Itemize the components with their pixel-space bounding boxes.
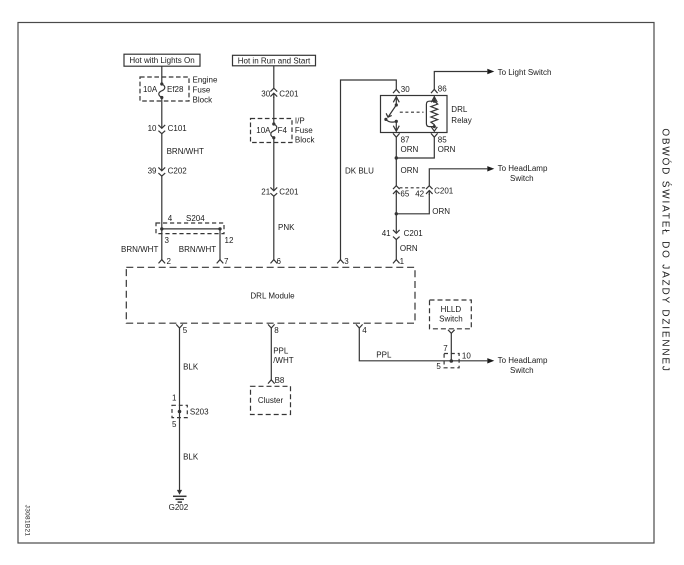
splice S204 bus	[162, 228, 220, 230]
connector B8 chevron	[268, 380, 275, 384]
svg-text:4: 4	[168, 214, 173, 223]
svg-text:G202: G202	[169, 503, 189, 512]
wire C101 to C202 BRN/WHT	[161, 134, 163, 169]
pin 6 chevron	[271, 260, 278, 264]
wire 42 branch to headlamp switch	[429, 169, 487, 186]
svg-text:5: 5	[172, 420, 177, 429]
connector C201-42 symbol	[426, 186, 433, 189]
arrow to headlamp switch upper	[487, 166, 494, 171]
node ORN lower join	[395, 212, 398, 215]
svg-text:10: 10	[462, 352, 471, 361]
svg-text:42: 42	[415, 189, 424, 198]
svg-text:C101: C101	[168, 124, 188, 133]
wire HLLD to junction	[450, 333, 452, 361]
svg-text:Hot in Run and Start: Hot in Run and Start	[238, 57, 311, 66]
HLLD switch dashed box	[430, 300, 472, 329]
svg-text:OBWÓD ŚWIATEŁ DO JAZDY DZIENNE: OBWÓD ŚWIATEŁ DO JAZDY DZIENNEJ	[660, 128, 673, 372]
module pin 5 chevron	[176, 324, 183, 328]
svg-text:Ef28: Ef28	[167, 85, 184, 94]
svg-text:Cluster: Cluster	[258, 396, 284, 405]
svg-text:5: 5	[436, 362, 441, 371]
fuse block F4 dashed box	[251, 119, 293, 143]
svg-text:C202: C202	[168, 167, 188, 176]
svg-text:4: 4	[362, 326, 367, 335]
ground G202 symbol	[177, 490, 182, 495]
svg-text:7: 7	[224, 257, 229, 266]
junction connector dashed box	[444, 354, 459, 368]
svg-text:7: 7	[443, 344, 448, 353]
pin 7 chevron	[217, 260, 224, 264]
svg-text:87: 87	[401, 136, 410, 145]
node S203	[178, 410, 182, 414]
DRL Module dashed box	[126, 267, 415, 323]
svg-text:S203: S203	[190, 408, 209, 417]
connector C101 symbol	[158, 125, 165, 128]
svg-text:39: 39	[148, 167, 157, 176]
svg-text:C201: C201	[279, 89, 299, 98]
svg-text:85: 85	[438, 136, 447, 145]
svg-text:F4: F4	[278, 126, 288, 135]
wire PPL pin4 to headlamp switch	[359, 328, 487, 361]
svg-text:3: 3	[165, 236, 170, 245]
wire C201-21 to module pin 6	[273, 196, 275, 259]
wire fuse Ef28 to C101	[161, 98, 163, 127]
svg-text:2: 2	[167, 257, 172, 266]
relay actuate dashed line	[400, 111, 424, 113]
pin 3 chevron	[337, 260, 344, 264]
wire relay 86 up to light switch	[434, 72, 487, 90]
svg-text:Switch: Switch	[510, 174, 534, 183]
svg-text:I/P: I/P	[295, 116, 305, 125]
svg-text:Switch: Switch	[510, 366, 534, 375]
relay pin86 inner stem	[431, 96, 437, 103]
svg-text:Hot with Lights On: Hot with Lights On	[129, 56, 194, 65]
splice S203 dashed box	[172, 405, 187, 417]
wire ORN pin87 down	[395, 137, 397, 186]
svg-text:1: 1	[400, 257, 405, 266]
module pin 4 chevron	[356, 324, 363, 328]
svg-text:41: 41	[382, 229, 391, 238]
svg-text:Fuse: Fuse	[295, 126, 313, 135]
svg-text:ORN: ORN	[401, 145, 419, 154]
svg-text:DK BLU: DK BLU	[345, 167, 374, 176]
wire ORN pin85 join	[396, 137, 434, 158]
svg-text:21: 21	[261, 188, 270, 197]
relay switch to pin87 stem	[393, 121, 399, 131]
wire DK BLU module pin 3 to relay 30	[341, 80, 397, 260]
pin 1 chevron	[393, 260, 400, 264]
wire C201-30 to fuse F4	[273, 97, 275, 125]
svg-text:10A: 10A	[143, 85, 158, 94]
svg-text:To Light Switch: To Light Switch	[498, 68, 552, 77]
svg-text:DRL Module: DRL Module	[250, 291, 295, 300]
svg-text:C201: C201	[434, 187, 454, 196]
svg-text:BRN/WHT: BRN/WHT	[179, 245, 216, 254]
pin 2 chevron	[159, 260, 166, 264]
svg-text:/WHT: /WHT	[273, 356, 294, 365]
feed box Hot in Run and Start	[233, 55, 316, 66]
svg-text:10A: 10A	[256, 126, 271, 135]
wire S204 to module pin 2	[161, 229, 163, 260]
wire 65 branch down to node	[395, 194, 397, 214]
wire PPL/WHT pin8 to cluster	[270, 328, 272, 380]
svg-text:DRL: DRL	[451, 105, 468, 114]
node ORN join	[395, 156, 398, 159]
connector C201 dashed separator	[400, 187, 427, 189]
wire fuse F4 to C201-21 PNK	[273, 138, 275, 190]
svg-text:ORN: ORN	[432, 207, 450, 216]
svg-text:BLK: BLK	[183, 453, 199, 462]
fuse block Ef28 dashed box	[140, 77, 189, 101]
svg-text:65: 65	[400, 189, 409, 198]
svg-text:86: 86	[438, 85, 447, 94]
cluster dashed box	[251, 386, 291, 414]
HLLD pin chevron	[448, 330, 455, 334]
svg-text:To HeadLamp: To HeadLamp	[498, 356, 548, 365]
svg-text:C201: C201	[279, 188, 299, 197]
wire BLK pin5 to ground	[179, 328, 181, 490]
fuse Ef28 element	[159, 84, 165, 98]
svg-text:30: 30	[401, 85, 410, 94]
relay pin30 inner stem	[393, 96, 399, 106]
connector C201-21 symbol	[270, 187, 277, 190]
splice S204 dashed box	[156, 223, 224, 234]
svg-text:5: 5	[183, 326, 188, 335]
svg-text:S204: S204	[186, 214, 205, 223]
svg-text:Block: Block	[295, 136, 316, 145]
relay pin 85 chevron	[431, 133, 438, 137]
svg-text:PPL: PPL	[273, 347, 289, 356]
svg-text:C201: C201	[404, 229, 424, 238]
svg-text:Engine: Engine	[193, 75, 218, 84]
svg-text:Relay: Relay	[451, 116, 471, 125]
arrow to headlamp switch lower	[487, 358, 494, 363]
relay pin 86 chevron	[431, 89, 438, 93]
svg-text:30: 30	[261, 89, 270, 98]
svg-text:6: 6	[277, 257, 282, 266]
svg-text:J3081B21: J3081B21	[24, 505, 31, 537]
svg-text:12: 12	[225, 236, 234, 245]
feed box Hot with Lights On	[124, 54, 200, 66]
module pin 8 chevron	[268, 324, 275, 328]
fuse F4 element	[271, 124, 277, 138]
svg-text:Block: Block	[193, 95, 214, 104]
node junction	[450, 359, 454, 363]
relay pin 87 chevron	[393, 133, 400, 137]
svg-text:ORN: ORN	[438, 145, 456, 154]
svg-text:B8: B8	[275, 376, 285, 385]
svg-text:BRN/WHT: BRN/WHT	[121, 245, 158, 254]
wire node to C201-41	[395, 214, 397, 233]
wire 42 branch down to node	[396, 194, 429, 214]
relay coil zigzag	[431, 101, 438, 126]
relay coil loop	[433, 100, 436, 103]
svg-text:To HeadLamp: To HeadLamp	[498, 164, 548, 173]
wire C202 to splice S204	[161, 176, 163, 229]
svg-text:BRN/WHT: BRN/WHT	[167, 147, 204, 156]
wire box1 to fuse Ef28	[161, 66, 163, 84]
connector C201-30 symbol	[270, 88, 277, 91]
svg-text:PNK: PNK	[278, 223, 295, 232]
connector C202 symbol	[158, 167, 165, 170]
svg-text:ORN: ORN	[401, 166, 419, 175]
wire box2 to connector C201-30	[273, 66, 275, 88]
svg-text:3: 3	[344, 257, 349, 266]
svg-text:ORN: ORN	[400, 244, 418, 253]
svg-text:PPL: PPL	[376, 351, 392, 360]
arrow to light switch	[487, 69, 494, 74]
wire ORN to module pin 1	[395, 240, 397, 260]
svg-text:10: 10	[148, 124, 157, 133]
svg-text:BLK: BLK	[183, 363, 199, 372]
relay pin 30 chevron	[393, 89, 400, 93]
relay coil to pin85 stem	[431, 127, 437, 131]
svg-text:Switch: Switch	[439, 314, 463, 323]
connector C201-65 symbol	[393, 186, 400, 189]
svg-text:8: 8	[274, 326, 279, 335]
svg-text:HLLD: HLLD	[441, 305, 462, 314]
relay box DRL Relay	[381, 96, 448, 133]
relay switch arm	[395, 103, 398, 106]
connector C201-41 symbol	[393, 230, 400, 233]
svg-text:Fuse: Fuse	[193, 85, 211, 94]
wire S204 to module pin 7	[219, 229, 221, 260]
svg-text:1: 1	[172, 394, 177, 403]
